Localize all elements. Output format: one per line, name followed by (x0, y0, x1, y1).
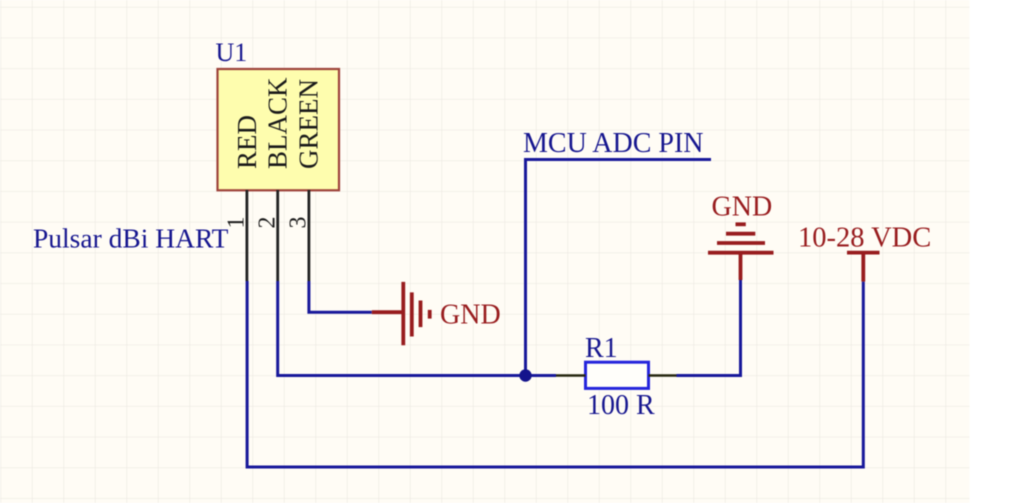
wire pin3 net to left GND (309, 281, 372, 312)
svg-text:U1: U1 (216, 38, 248, 67)
svg-text:R1: R1 (585, 333, 618, 364)
component U1 body (218, 69, 340, 190)
svg-text:GND: GND (712, 192, 773, 223)
power port GND left (rotated earth bars) (372, 282, 430, 345)
svg-text:MCU ADC PIN: MCU ADC PIN (523, 128, 703, 159)
svg-text:RED: RED (232, 115, 262, 169)
pin 3 stub (307, 190, 310, 281)
pin 2 stub (276, 190, 279, 281)
svg-text:BLACK: BLACK (263, 77, 293, 169)
svg-text:2: 2 (255, 217, 281, 229)
resistor R1 body (586, 362, 649, 388)
power port GND right (earth bars) (708, 224, 774, 280)
power port 10-28 VDC bar (847, 253, 880, 282)
wire pin1 net: down, bottom run, up to VDC (247, 281, 863, 467)
resistor R1 left pin (556, 374, 586, 377)
wire resistor to GND (677, 280, 741, 376)
svg-text:Pulsar dBi HART: Pulsar dBi HART (33, 223, 229, 254)
svg-text:10-28 VDC: 10-28 VDC (798, 223, 931, 254)
resistor R1 right pin (649, 374, 677, 377)
svg-text:GREEN: GREEN (294, 79, 324, 169)
pin 1 stub (245, 190, 248, 281)
svg-text:GND: GND (440, 300, 501, 331)
wire MCU ADC PIN net (526, 160, 712, 376)
junction node (519, 369, 531, 381)
svg-text:3: 3 (286, 217, 312, 229)
wire pin2 net to junction and resistor (278, 281, 556, 376)
svg-text:100 R: 100 R (587, 390, 655, 421)
